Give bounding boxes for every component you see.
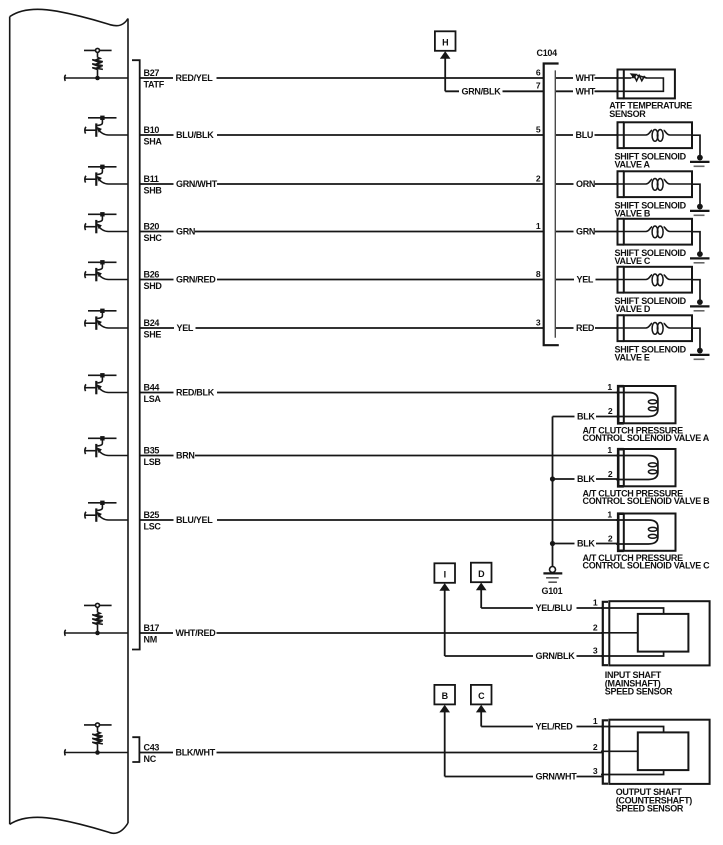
- internal pull-up resistor + thermistor input at pin B27: [65, 48, 128, 81]
- wire GRN: pin B20 to C104 pin 1: [140, 231, 544, 233]
- svg-text:SPEED SENSOR: SPEED SENSOR: [616, 804, 684, 814]
- ATF temperature sensor (thermistor): [616, 70, 675, 99]
- wire color label GRN: [574, 227, 596, 237]
- wire BLK: clutch valve B pin 2 to ground bus: [553, 478, 619, 480]
- svg-text:SHA: SHA: [144, 137, 163, 147]
- svg-text:LSC: LSC: [144, 522, 162, 532]
- svg-text:GRN/BLK: GRN/BLK: [462, 87, 502, 97]
- transistor driver at pin B35: [85, 436, 128, 457]
- svg-text:BLU/YEL: BLU/YEL: [176, 515, 213, 525]
- svg-text:SHC: SHC: [144, 233, 163, 243]
- wire color label YEL/BLU: [533, 603, 577, 613]
- svg-text:1: 1: [593, 597, 598, 607]
- wire color label WHT: [573, 73, 595, 83]
- svg-text:VALVE C: VALVE C: [615, 256, 651, 266]
- junction node: valve C BLK to bus: [550, 541, 555, 546]
- wire color label GRN: [174, 227, 196, 237]
- output shaft (countershaft) speed sensor: [601, 720, 710, 784]
- svg-text:6: 6: [536, 67, 541, 77]
- wire BLU: C104 pin 5 to shift solenoid A: [555, 134, 617, 136]
- wire color label WHT/RED: [173, 628, 217, 638]
- svg-text:2: 2: [593, 622, 598, 632]
- svg-text:WHT/RED: WHT/RED: [176, 628, 217, 638]
- wire color label BLU/YEL: [174, 515, 218, 525]
- svg-text:B26: B26: [144, 269, 160, 279]
- svg-text:ORN: ORN: [576, 179, 595, 189]
- shift solenoid valve D (coil): [616, 267, 710, 311]
- wire from connector B down to GRN/WHT (output sensor pin 3): [444, 712, 446, 777]
- wire color label YEL: [574, 275, 596, 285]
- svg-text:NC: NC: [144, 754, 157, 764]
- svg-text:VALVE B: VALVE B: [615, 209, 651, 219]
- input shaft (mainshaft) speed sensor: [601, 601, 710, 665]
- svg-text:BLU: BLU: [576, 130, 594, 140]
- wire GRN/RED: pin B26 to C104 pin 8: [140, 279, 544, 281]
- svg-text:2: 2: [593, 742, 598, 752]
- svg-text:LSA: LSA: [144, 394, 162, 404]
- svg-text:GRN: GRN: [576, 227, 595, 237]
- svg-text:B44: B44: [144, 382, 160, 392]
- svg-text:BRN: BRN: [176, 451, 195, 461]
- wire BLU/BLK: pin B10 to C104 pin 5: [140, 134, 544, 136]
- ECM connector C bracket (pin C43): [132, 737, 139, 762]
- wire color label BLK: [575, 474, 597, 484]
- transistor driver at pin B24: [85, 309, 128, 330]
- connector C104 body: [544, 64, 559, 346]
- svg-text:B17: B17: [144, 623, 160, 633]
- wire YEL: pin B24 to C104 pin 3: [140, 327, 544, 329]
- wire GRN/BLK: connector I to input sensor pin 3: [445, 655, 603, 657]
- wire RED: C104 pin 3 to shift solenoid E: [555, 327, 617, 329]
- shift solenoid valve E (coil): [616, 315, 710, 359]
- svg-text:BLU/BLK: BLU/BLK: [176, 130, 214, 140]
- wire color label RED/YEL: [173, 73, 217, 83]
- svg-text:SHE: SHE: [144, 330, 162, 340]
- wire WHT/RED: pin B17 to input speed sensor pin 2: [140, 632, 603, 634]
- wire color label RED/BLK: [174, 388, 218, 398]
- svg-text:B20: B20: [144, 221, 160, 231]
- svg-text:2: 2: [608, 533, 613, 543]
- wire color label BLK: [575, 539, 597, 549]
- ECM/PCM module torn-edge outline: [10, 9, 128, 833]
- wire color label GRN/BLK: [533, 651, 577, 661]
- svg-text:VALVE A: VALVE A: [615, 160, 651, 170]
- wire color label YEL: [174, 323, 196, 333]
- wire GRN/WHT: connector B to output sensor pin 3: [445, 776, 603, 778]
- wire color label BLU/BLK: [174, 130, 218, 140]
- svg-text:SENSOR: SENSOR: [609, 109, 646, 119]
- svg-text:YEL: YEL: [577, 275, 594, 285]
- wire color label GRN/WHT: [533, 772, 577, 782]
- svg-text:RED: RED: [576, 323, 595, 333]
- svg-text:7: 7: [536, 81, 541, 91]
- transistor driver at pin B25: [85, 501, 128, 522]
- wire BRN: pin B35 to clutch valve B pin 1: [140, 455, 618, 457]
- wire BLK/WHT: pin C43 to output speed sensor pin 3... pin 2: [140, 752, 603, 754]
- wire color label RED: [574, 323, 596, 333]
- wire BLU/YEL: pin B25 to clutch valve C pin 1: [140, 519, 618, 521]
- svg-text:GRN/WHT: GRN/WHT: [536, 772, 578, 782]
- svg-text:CONTROL SOLENOID VALVE B: CONTROL SOLENOID VALVE B: [583, 496, 711, 506]
- connector C: [471, 685, 492, 713]
- svg-text:B: B: [442, 691, 449, 701]
- transistor driver at pin B44: [85, 373, 128, 394]
- svg-text:3: 3: [536, 317, 541, 327]
- transistor driver at pin B26: [85, 260, 128, 281]
- wire color label BLU: [573, 130, 595, 140]
- svg-text:WHT: WHT: [576, 73, 596, 83]
- ECM connector B bracket: [132, 60, 140, 649]
- internal resistor at pin C43: [65, 723, 128, 756]
- svg-text:YEL/RED: YEL/RED: [536, 722, 574, 732]
- transistor driver at pin B10: [85, 116, 128, 137]
- connector B: [434, 685, 455, 713]
- svg-text:SHB: SHB: [144, 186, 163, 196]
- svg-text:RED/YEL: RED/YEL: [176, 73, 214, 83]
- wire from connector D down to YEL/BLU (input sensor pin 1): [480, 590, 482, 608]
- A/T clutch pressure control solenoid valve A (coil): [616, 386, 676, 423]
- svg-text:B10: B10: [144, 125, 160, 135]
- svg-text:C: C: [478, 691, 485, 701]
- connector I: [434, 563, 455, 591]
- shift solenoid valve A (coil): [616, 122, 710, 166]
- svg-text:GRN/WHT: GRN/WHT: [176, 179, 218, 189]
- wire RED/BLK: pin B44 to clutch valve A pin 1: [140, 392, 618, 394]
- svg-text:SHD: SHD: [144, 281, 163, 291]
- svg-text:3: 3: [593, 645, 598, 655]
- wire from connector H down to GRN/BLK: [444, 58, 446, 91]
- svg-text:GRN: GRN: [176, 227, 195, 237]
- ground bus wire to G101: [552, 417, 554, 567]
- junction node: valve B BLK to bus: [550, 476, 555, 481]
- svg-text:GRN/BLK: GRN/BLK: [536, 651, 576, 661]
- shift solenoid valve B (coil): [616, 171, 710, 215]
- svg-text:B27: B27: [144, 68, 160, 78]
- svg-text:SPEED SENSOR: SPEED SENSOR: [605, 687, 673, 697]
- svg-text:B11: B11: [144, 174, 159, 184]
- transistor driver at pin B11: [85, 165, 128, 186]
- shift solenoid valve C (coil): [616, 219, 710, 263]
- svg-text:LSB: LSB: [144, 457, 162, 467]
- svg-text:BLK/WHT: BLK/WHT: [176, 748, 216, 758]
- internal resistor at pin B17: [65, 603, 128, 636]
- wire GRN/BLK: connector H to C104 pin 7: [445, 90, 544, 92]
- svg-text:YEL/BLU: YEL/BLU: [536, 603, 572, 613]
- svg-text:1: 1: [536, 221, 541, 231]
- svg-text:1: 1: [593, 716, 598, 726]
- wire BLK: clutch valve A pin 2 to ground bus: [553, 416, 619, 418]
- svg-text:VALVE E: VALVE E: [615, 353, 650, 363]
- wire color label BLK: [575, 412, 597, 422]
- svg-text:YEL: YEL: [177, 323, 194, 333]
- svg-text:1: 1: [607, 509, 612, 519]
- wire YEL: C104 pin 8 to shift solenoid D: [555, 279, 617, 281]
- svg-text:2: 2: [608, 406, 613, 416]
- transistor driver at pin B20: [85, 212, 128, 233]
- svg-text:2: 2: [536, 173, 541, 183]
- wire WHT: C104 pin 6 to ATF sensor pin 1: [555, 77, 617, 79]
- A/T clutch pressure control solenoid valve B (coil): [616, 449, 676, 486]
- svg-text:B24: B24: [144, 318, 160, 328]
- svg-text:G101: G101: [542, 586, 563, 596]
- svg-text:B25: B25: [144, 510, 160, 520]
- wire color label BLK/WHT: [173, 748, 217, 758]
- svg-text:BLK: BLK: [577, 539, 595, 549]
- wire color label WHT: [573, 86, 595, 96]
- svg-text:NM: NM: [144, 635, 157, 645]
- svg-text:CONTROL SOLENOID VALVE C: CONTROL SOLENOID VALVE C: [583, 561, 711, 571]
- wire BLK: clutch valve C pin 2 to ground bus: [553, 543, 619, 545]
- svg-text:CONTROL SOLENOID VALVE A: CONTROL SOLENOID VALVE A: [583, 433, 710, 443]
- wire RED/YEL: pin B27 to C104 pin 6: [140, 77, 544, 79]
- svg-text:2: 2: [608, 469, 613, 479]
- wire GRN/WHT: pin B11 to C104 pin 2: [140, 183, 544, 185]
- A/T clutch pressure control solenoid valve C (coil): [616, 514, 676, 551]
- svg-text:1: 1: [607, 382, 612, 392]
- svg-text:WHT: WHT: [576, 87, 596, 97]
- svg-text:C104: C104: [537, 48, 558, 58]
- svg-text:D: D: [478, 569, 485, 579]
- wire GRN: C104 pin 1 to shift solenoid C: [555, 231, 617, 233]
- wire color label GRN/WHT: [174, 179, 218, 189]
- svg-text:C43: C43: [144, 742, 160, 752]
- svg-text:TATF: TATF: [144, 80, 165, 90]
- wire color label GRN/RED: [174, 275, 218, 285]
- wire ORN: C104 pin 2 to shift solenoid B: [555, 183, 617, 185]
- svg-text:3: 3: [593, 766, 598, 776]
- svg-text:GRN/RED: GRN/RED: [176, 275, 216, 285]
- wire from connector I down to GRN/BLK (input sensor pin 3): [444, 590, 446, 656]
- wire YEL/BLU: connector D to input sensor pin 1: [481, 607, 603, 609]
- svg-text:BLK: BLK: [577, 474, 595, 484]
- ground G101: [543, 567, 562, 583]
- svg-text:BLK: BLK: [577, 412, 595, 422]
- svg-text:1: 1: [607, 445, 612, 455]
- wire color label BRN: [174, 451, 196, 461]
- svg-text:H: H: [442, 38, 448, 48]
- svg-text:B35: B35: [144, 445, 160, 455]
- wire WHT: C104 pin 7 to ATF sensor pin 2: [555, 90, 617, 92]
- wire from connector C down to YEL/RED (output sensor pin 1): [480, 712, 482, 727]
- wire YEL/RED: connector C to output sensor pin 1: [481, 726, 603, 728]
- wire color label GRN/BLK: [459, 86, 503, 96]
- connector D: [471, 563, 492, 591]
- connector H (to sheet H): [435, 31, 456, 59]
- svg-text:VALVE D: VALVE D: [615, 304, 651, 314]
- svg-text:I: I: [444, 570, 446, 580]
- svg-text:8: 8: [536, 269, 541, 279]
- wire color label ORN: [574, 179, 596, 189]
- wire color label YEL/RED: [533, 722, 577, 732]
- svg-text:RED/BLK: RED/BLK: [176, 388, 215, 398]
- svg-text:5: 5: [536, 124, 541, 134]
